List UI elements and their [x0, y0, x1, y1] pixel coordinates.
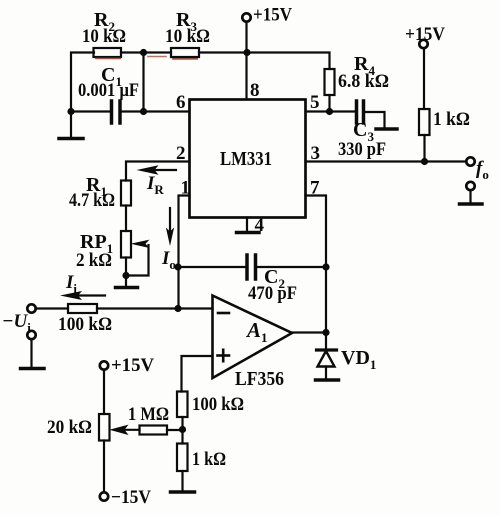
ground (pin 4) [237, 231, 260, 235]
node C2 right junction [322, 263, 329, 270]
ground (top-left) [59, 137, 83, 141]
wire 1M to node [167, 429, 183, 431]
wire fo ground [469, 190, 471, 204]
wire bias node to 1k [181, 430, 183, 444]
svg-text:1: 1 [181, 178, 191, 199]
wire C1 left lead [71, 110, 110, 112]
svg-text:1 MΩ: 1 MΩ [128, 404, 169, 425]
wire A1 output [292, 331, 326, 333]
wire R2 to junction [121, 51, 144, 53]
wire noninverting input [182, 356, 213, 392]
wire top rail to R4 [247, 53, 330, 70]
terminal +15V (right) [419, 40, 427, 48]
wire junction to R3 [144, 51, 172, 53]
svg-text:100 kΩ: 100 kΩ [192, 394, 244, 415]
wire RP1 bottom to ground [125, 258, 127, 288]
terminal fo [466, 157, 474, 165]
svg-text:4: 4 [255, 215, 265, 236]
resistor R1 [121, 181, 131, 206]
diode VD1 triangle [318, 351, 335, 367]
svg-text:6.8 kΩ: 6.8 kΩ [338, 71, 389, 92]
wire R3 to +15V node [199, 51, 247, 53]
capacitor C3 [355, 101, 359, 123]
svg-text:10 kΩ: 10 kΩ [165, 26, 210, 47]
resistor 100k (input) [68, 304, 97, 313]
wire R4 to pin5 node [328, 95, 330, 112]
wire pin 1 down to inverting node [179, 196, 190, 309]
terminal +15V (bottom left) [100, 361, 108, 369]
terminal fo ground circle [466, 182, 474, 190]
node RP1/wiper junction [122, 272, 129, 279]
svg-text:LF356: LF356 [235, 368, 284, 390]
op-amp U1 LM331 body [190, 100, 306, 218]
svg-text:+15V: +15V [111, 355, 154, 376]
terminal -Ui ground circle [27, 331, 35, 339]
resistor R3 [171, 48, 199, 57]
wire 100k bias to node [181, 417, 183, 430]
svg-text:100 kΩ: 100 kΩ [58, 314, 112, 335]
wire pin 4 stub [246, 218, 248, 233]
op-amp A1 triangle [213, 296, 293, 379]
current arrow Io [169, 208, 171, 231]
wire R2 left lead and left vertical down to ground [71, 53, 94, 139]
wire 1k to ground [181, 471, 183, 492]
svg-text:−15V: −15V [111, 487, 151, 508]
svg-text:+15V: +15V [253, 5, 292, 26]
wire pot to -15V [103, 441, 105, 493]
svg-text:2 kΩ: 2 kΩ [76, 250, 112, 271]
svg-text:1 kΩ: 1 kΩ [433, 109, 470, 130]
wire -Ui ground [30, 339, 32, 368]
resistor 100k (bias) [177, 392, 188, 418]
ground (1k bottom) [171, 490, 195, 494]
RP1 wiper arm [126, 245, 149, 276]
node +15V/pin8 junction [243, 49, 250, 56]
svg-text:7: 7 [310, 178, 320, 199]
resistor 1k (bottom) [177, 444, 188, 472]
svg-text:20 kΩ: 20 kΩ [47, 417, 92, 438]
wire VD1 anode [325, 367, 327, 380]
wire C2 left [178, 266, 246, 268]
potentiometer 20k body [99, 414, 110, 441]
A1 minus input sign [218, 312, 229, 315]
wire +15V to pot [103, 370, 105, 415]
wire +15V right down to 1k [423, 48, 425, 109]
wire 100k to inverting node [97, 307, 178, 309]
svg-text:0.001 μF: 0.001 μF [78, 80, 139, 101]
resistor 1k (right) [419, 109, 430, 135]
capacitor C1 [110, 101, 114, 123]
node pin3/1k junction [421, 158, 428, 165]
node output junction [322, 329, 329, 336]
terminal -Ui [27, 304, 35, 312]
wire C3 to ground [365, 112, 385, 128]
resistor R2 [94, 48, 122, 57]
svg-text:1 kΩ: 1 kΩ [192, 449, 226, 470]
terminal +15V (top center) [242, 13, 250, 21]
ground (RP1) [116, 286, 138, 290]
svg-text:3: 3 [311, 143, 321, 164]
svg-text:−Ui: −Ui [2, 311, 31, 335]
svg-text:8: 8 [250, 80, 260, 101]
svg-text:470 pF: 470 pF [248, 283, 297, 304]
node inverting input junction [174, 305, 181, 312]
svg-text:2: 2 [176, 143, 186, 164]
current arrow IR [154, 169, 176, 171]
1M wiper arrow to pot [124, 429, 140, 431]
node C1/pin6 junction [140, 108, 147, 115]
wire 1k to pin3 rail [423, 135, 425, 162]
wire pin 5 [306, 110, 330, 112]
wire pin 3 to fo [306, 160, 467, 162]
wire -Ui to 100k [36, 307, 69, 309]
wire R1 to RP1 [125, 206, 127, 232]
ground (-Ui) [21, 367, 45, 371]
resistor 1M [140, 426, 168, 435]
wire pin 2 [126, 162, 190, 181]
svg-text:10 kΩ: 10 kΩ [82, 26, 126, 47]
potentiometer RP1 [121, 231, 131, 258]
capacitor C2 [245, 255, 249, 279]
svg-text:330 pF: 330 pF [338, 139, 386, 160]
svg-text:4.7 kΩ: 4.7 kΩ [69, 190, 115, 211]
node C1 left junction [67, 108, 74, 115]
ground (C3) [376, 127, 397, 131]
ground (fo) [460, 202, 483, 206]
wire R2R3 junction down to pin6 wire [142, 53, 144, 112]
diode VD1 cathode bar [317, 348, 337, 351]
wire C1 right to pin 6 [122, 110, 190, 112]
svg-text:6: 6 [176, 92, 186, 113]
wire output node to VD1 [325, 333, 327, 350]
current arrow Ii [77, 294, 105, 296]
wire pin 8 [245, 53, 247, 100]
wire C2 right [257, 266, 326, 268]
wire +15V terminal down [245, 22, 247, 53]
svg-text:5: 5 [310, 92, 320, 113]
A1 plus input sign [218, 354, 230, 357]
wire pin5 node to C3 [330, 110, 356, 112]
terminal -15V [100, 492, 108, 500]
resistor R4 [325, 69, 335, 95]
node R2/R3 junction [140, 49, 147, 56]
node C2 left junction [174, 263, 181, 270]
wire inverting input [178, 307, 213, 309]
node bias junction [179, 426, 186, 433]
svg-text:+15V: +15V [405, 24, 445, 45]
svg-text:LM331: LM331 [220, 148, 272, 170]
ground (VD1) [316, 378, 339, 382]
wire pin 7 down to output node [306, 196, 327, 333]
node pin5 junction [326, 108, 333, 115]
